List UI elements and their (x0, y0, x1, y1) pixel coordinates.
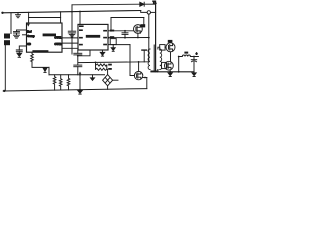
wire Q3 to Q4 (170, 52, 172, 62)
svg-text:SD: SD (27, 42, 31, 46)
wire input drop left (10, 13, 12, 34)
transistor Q3 (166, 43, 175, 52)
wire riser node A (71, 5, 73, 54)
wire input return left rail (4, 45, 6, 91)
resistor R6 (67, 75, 70, 90)
wire bootstrap riser (110, 18, 112, 31)
ground G1 (16, 13, 21, 18)
node HS dot (108, 37, 110, 39)
wire Q2 source drop (146, 78, 148, 89)
node bottom-left corner dot (3, 90, 5, 92)
wire bus to bottom link (79, 75, 81, 90)
svg-text:T1: T1 (153, 0, 157, 4)
label U2 LM5104 (86, 35, 100, 38)
node cap chain dot (77, 55, 79, 57)
wire primary lead (148, 14, 150, 62)
svg-text:Comp: Comp (27, 34, 35, 38)
capacitor C3 C4 stack (74, 50, 82, 75)
capacitor C8 tick (142, 50, 147, 62)
ground G7 arrow (168, 73, 172, 77)
wire switch node M1 (78, 61, 149, 64)
svg-text:Ref: Ref (27, 30, 31, 34)
pin U1 VIN top (28, 12, 30, 23)
wire Q4 source (169, 70, 171, 72)
node U1 pin1 marker (27, 24, 30, 27)
wire bootstrap top (111, 17, 144, 19)
wire R3 to ground (32, 63, 49, 68)
label HO net (110, 30, 114, 32)
node riser dots (178, 56, 180, 73)
label HS net (110, 36, 114, 38)
wire R9 to Q3 (164, 46, 167, 48)
node Q1 source dot (137, 37, 139, 39)
label U1 bottom pins (32, 50, 48, 52)
transformer T1 secondary winding (160, 49, 162, 70)
diode D1 (140, 2, 156, 6)
label Q1 (141, 24, 146, 27)
resistor R8 (96, 65, 107, 70)
ground G8 arrow (192, 73, 196, 77)
node Q2 source dot (144, 77, 146, 79)
wire HS node (108, 37, 149, 39)
diode arrow at bus (79, 72, 82, 74)
node bus dot (79, 74, 81, 76)
wire gnd link (62, 47, 78, 49)
resistor R9 gate box (160, 45, 165, 51)
wire output riser (178, 57, 180, 72)
label U2 left pins (79, 25, 84, 45)
wire OUT1 link (62, 37, 78, 39)
node M1 dots (95, 61, 140, 63)
diode bridge BR1 (103, 75, 113, 86)
label Q3 (168, 40, 173, 43)
ground G5 arrow (43, 68, 47, 73)
wire comp stub (23, 34, 27, 36)
node bottom dot (79, 89, 81, 91)
wire HO gate (108, 30, 134, 32)
resistor R5 (59, 75, 62, 90)
ground G6 arrow (100, 50, 104, 56)
transistor Q4 (165, 61, 174, 70)
wire secondary return bus riser (48, 67, 50, 74)
wire bottom return bus (3, 89, 147, 91)
wire U2 bottom link (78, 50, 90, 56)
transformer T1 primary winding (148, 49, 150, 70)
capacitor C2 on SD (16, 46, 26, 53)
ground G10 arrow on bus (91, 75, 95, 81)
wire secondary bottom bus (158, 70, 194, 72)
capacitor C5 with ground on riser (68, 31, 75, 37)
label R8 (108, 68, 112, 70)
inductor L1 (179, 55, 199, 57)
node A junction dot (71, 11, 73, 13)
op-amp U1 controller box (27, 23, 63, 52)
wire A upper rail (72, 3, 140, 6)
transistor Q2 (134, 62, 146, 80)
ground G4 arrow (17, 53, 22, 57)
node VIN+ terminal dot (1, 12, 3, 14)
wire secondary top (158, 47, 160, 49)
wire LO gate (108, 44, 130, 46)
wire LO drop (130, 45, 134, 76)
node bootstrap dot (110, 30, 112, 32)
transformer T1 core (153, 45, 155, 72)
wire center-tap (141, 11, 147, 13)
node primary junction dot (148, 37, 150, 39)
ground G9 arrow (78, 90, 83, 94)
wire secondary return bus (49, 74, 105, 76)
node Q4 source dot (169, 71, 171, 73)
resistor R7 (96, 62, 107, 66)
connector J1 pads (4, 34, 10, 46)
resistor R3 (31, 52, 34, 62)
node U2 vcc dot (79, 11, 81, 13)
svg-text:OUT1: OUT1 (54, 36, 61, 40)
wire VIN bus top (3, 11, 141, 13)
label L1 (184, 52, 188, 54)
capacitor C7 small box (110, 39, 116, 52)
capacitor C9 output (191, 56, 196, 72)
capacitor C6 (122, 30, 128, 39)
op-amp U2 driver box (78, 24, 108, 50)
resistor R10 gate box (162, 62, 167, 68)
label U1 LM5030 (43, 34, 56, 37)
transformer bottom joint (150, 71, 158, 73)
wire transformer right core drop (155, 4, 157, 71)
terminal circle P1 (147, 11, 150, 14)
pin U2 VCC top (79, 12, 81, 25)
label U2 right pins (103, 30, 107, 45)
resistor R4 (53, 75, 56, 90)
svg-text:+: + (196, 52, 198, 56)
wire bridge right (113, 79, 118, 81)
label R7 (108, 64, 112, 66)
wire bridge bottom (107, 86, 109, 90)
wire OUT2 link (62, 42, 78, 44)
transistor Q1 (134, 18, 144, 38)
wire to bridge (106, 65, 109, 75)
capacitor C1 ref bypass (14, 30, 27, 38)
svg-text:OUT2: OUT2 (54, 42, 61, 46)
